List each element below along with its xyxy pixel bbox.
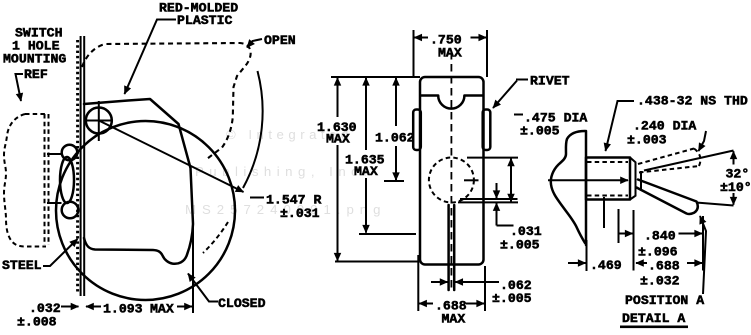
swing arc solid (1.547 R path) xyxy=(243,71,263,188)
svg-text:±.096: ±.096 xyxy=(638,245,678,260)
leader .240 DIA xyxy=(699,131,707,151)
dashed mounting-ref outline xyxy=(4,114,46,247)
left mounting tab xyxy=(413,110,421,151)
dimension 1.093 MAX xyxy=(86,306,101,308)
pivot centerline right stub xyxy=(464,179,479,181)
leader OPEN xyxy=(247,39,262,48)
svg-text:STEEL: STEEL xyxy=(2,258,42,273)
svg-text:MAX: MAX xyxy=(150,302,174,317)
svg-text:±10°: ±10° xyxy=(720,180,751,195)
switch body outline (side view) xyxy=(84,99,193,264)
svg-text:POSITION A: POSITION A xyxy=(625,293,704,308)
dimension .750 MAX xyxy=(413,30,415,77)
extension line 1.093 right xyxy=(192,220,194,313)
dimension line 1.635 MAX xyxy=(365,78,367,150)
solid lever POSITION A xyxy=(637,180,698,215)
leader RIVET xyxy=(493,81,517,109)
extension line small xyxy=(603,197,605,228)
lever neck xyxy=(640,171,642,190)
pivot boss xyxy=(86,108,112,134)
svg-text:±.032: ±.032 xyxy=(640,274,680,289)
dimension .062 xyxy=(431,281,448,283)
leader RED-MOLDED PLASTIC xyxy=(125,20,177,95)
svg-text:±.031: ±.031 xyxy=(280,206,320,221)
label .475 DIA xyxy=(514,114,523,116)
svg-text:±.008: ±.008 xyxy=(17,315,57,330)
leader POSITION A xyxy=(700,216,706,294)
svg-text:MAX: MAX xyxy=(442,312,466,327)
dimension .031 xyxy=(496,183,498,198)
svg-text:OPEN: OPEN xyxy=(264,33,296,48)
panel left line xyxy=(80,36,82,296)
reference line body bottom xyxy=(335,261,418,263)
angle line lower xyxy=(696,203,734,206)
svg-text:±.005: ±.005 xyxy=(520,124,560,139)
hole tangent line bottom xyxy=(458,201,518,203)
radius line 1.547 R xyxy=(99,121,244,193)
bushing thread dashed top xyxy=(587,161,628,163)
svg-text:MOUNTING: MOUNTING xyxy=(3,52,66,67)
svg-text:.438-32 NS THD: .438-32 NS THD xyxy=(637,94,748,109)
pivot cross horizontal xyxy=(85,120,114,122)
dimension .688 detail xyxy=(636,262,647,264)
leader CLOSED xyxy=(188,274,218,302)
svg-text:.469: .469 xyxy=(590,258,622,273)
reference line at pivot center left xyxy=(384,180,404,182)
angle dimension arc xyxy=(733,151,735,164)
flange mounting face xyxy=(585,131,588,245)
bushing thread dashed bottom xyxy=(587,195,628,197)
lug tie line lower xyxy=(47,202,62,204)
panel flange cross-section xyxy=(551,131,585,243)
toggle slot lines xyxy=(447,205,450,290)
bushing centerline with arrow xyxy=(548,179,628,181)
svg-text:MAX: MAX xyxy=(354,164,378,179)
gap reference line xyxy=(460,198,518,200)
swing arc dashed tail xyxy=(203,222,228,253)
right mounting tab xyxy=(483,110,491,151)
svg-text:±.005: ±.005 xyxy=(500,238,540,253)
leader REF xyxy=(16,74,24,101)
leader .438-32 xyxy=(606,101,635,151)
angle line upper xyxy=(644,151,734,171)
dashed mounting-ref double verticals xyxy=(44,114,46,245)
panel hatching xyxy=(76,40,79,294)
label 1.547 R xyxy=(250,197,264,199)
dashed open-cover outline xyxy=(82,43,251,160)
extension line lever tip xyxy=(702,216,704,271)
vertical centerline xyxy=(450,52,452,291)
svg-text:REF: REF xyxy=(24,67,48,82)
panel right line xyxy=(83,36,85,296)
svg-text:±.003: ±.003 xyxy=(627,133,667,148)
terminal lug bottom xyxy=(62,202,79,219)
dimension line .475 xyxy=(510,158,512,201)
dashed lever (up position) xyxy=(638,149,694,165)
dimension line 1.630 MAX xyxy=(337,78,339,117)
svg-text:1.093: 1.093 xyxy=(103,302,143,317)
dimension .469 xyxy=(568,262,586,264)
terminal lug top xyxy=(62,145,78,161)
reference line 1.635 bottom xyxy=(359,233,416,235)
extension line thread end xyxy=(618,209,620,243)
svg-text:MAX: MAX xyxy=(326,132,350,147)
dashed mounting-ref top edge xyxy=(25,113,48,115)
svg-text:RIVET: RIVET xyxy=(530,74,570,89)
svg-text:.688: .688 xyxy=(648,259,680,274)
svg-text:.240 DIA: .240 DIA xyxy=(633,119,696,134)
extension line pivot xyxy=(633,210,635,271)
svg-text:.840: .840 xyxy=(644,229,676,244)
dimension .840 xyxy=(620,233,633,235)
switch body front view xyxy=(420,77,484,265)
svg-text:MAX: MAX xyxy=(438,46,462,61)
svg-text:PLASTIC: PLASTIC xyxy=(177,13,232,28)
cover top edge with finger notch xyxy=(421,96,483,109)
lug tie line upper xyxy=(47,153,61,155)
label RIVET xyxy=(516,79,528,81)
svg-text:±.005: ±.005 xyxy=(492,291,532,306)
dimension line 1.062 xyxy=(395,78,397,126)
bushing .438-32 xyxy=(586,158,630,200)
bushing end cap xyxy=(630,158,636,200)
svg-text:CLOSED: CLOSED xyxy=(218,296,266,311)
cover circle (closed) xyxy=(56,121,235,300)
terminal lug middle oval xyxy=(60,157,74,203)
svg-text:DETAIL A: DETAIL A xyxy=(622,311,685,326)
dimension .688 MAX xyxy=(417,255,419,311)
leader STEEL xyxy=(43,239,78,266)
mounting hole dashed circle .475 DIA xyxy=(429,158,474,203)
extension line flange face xyxy=(586,240,588,271)
svg-text:1.062: 1.062 xyxy=(375,131,415,146)
pivot cross vertical xyxy=(98,101,100,141)
hole tangent line top xyxy=(467,157,518,159)
top reference line xyxy=(331,76,420,78)
